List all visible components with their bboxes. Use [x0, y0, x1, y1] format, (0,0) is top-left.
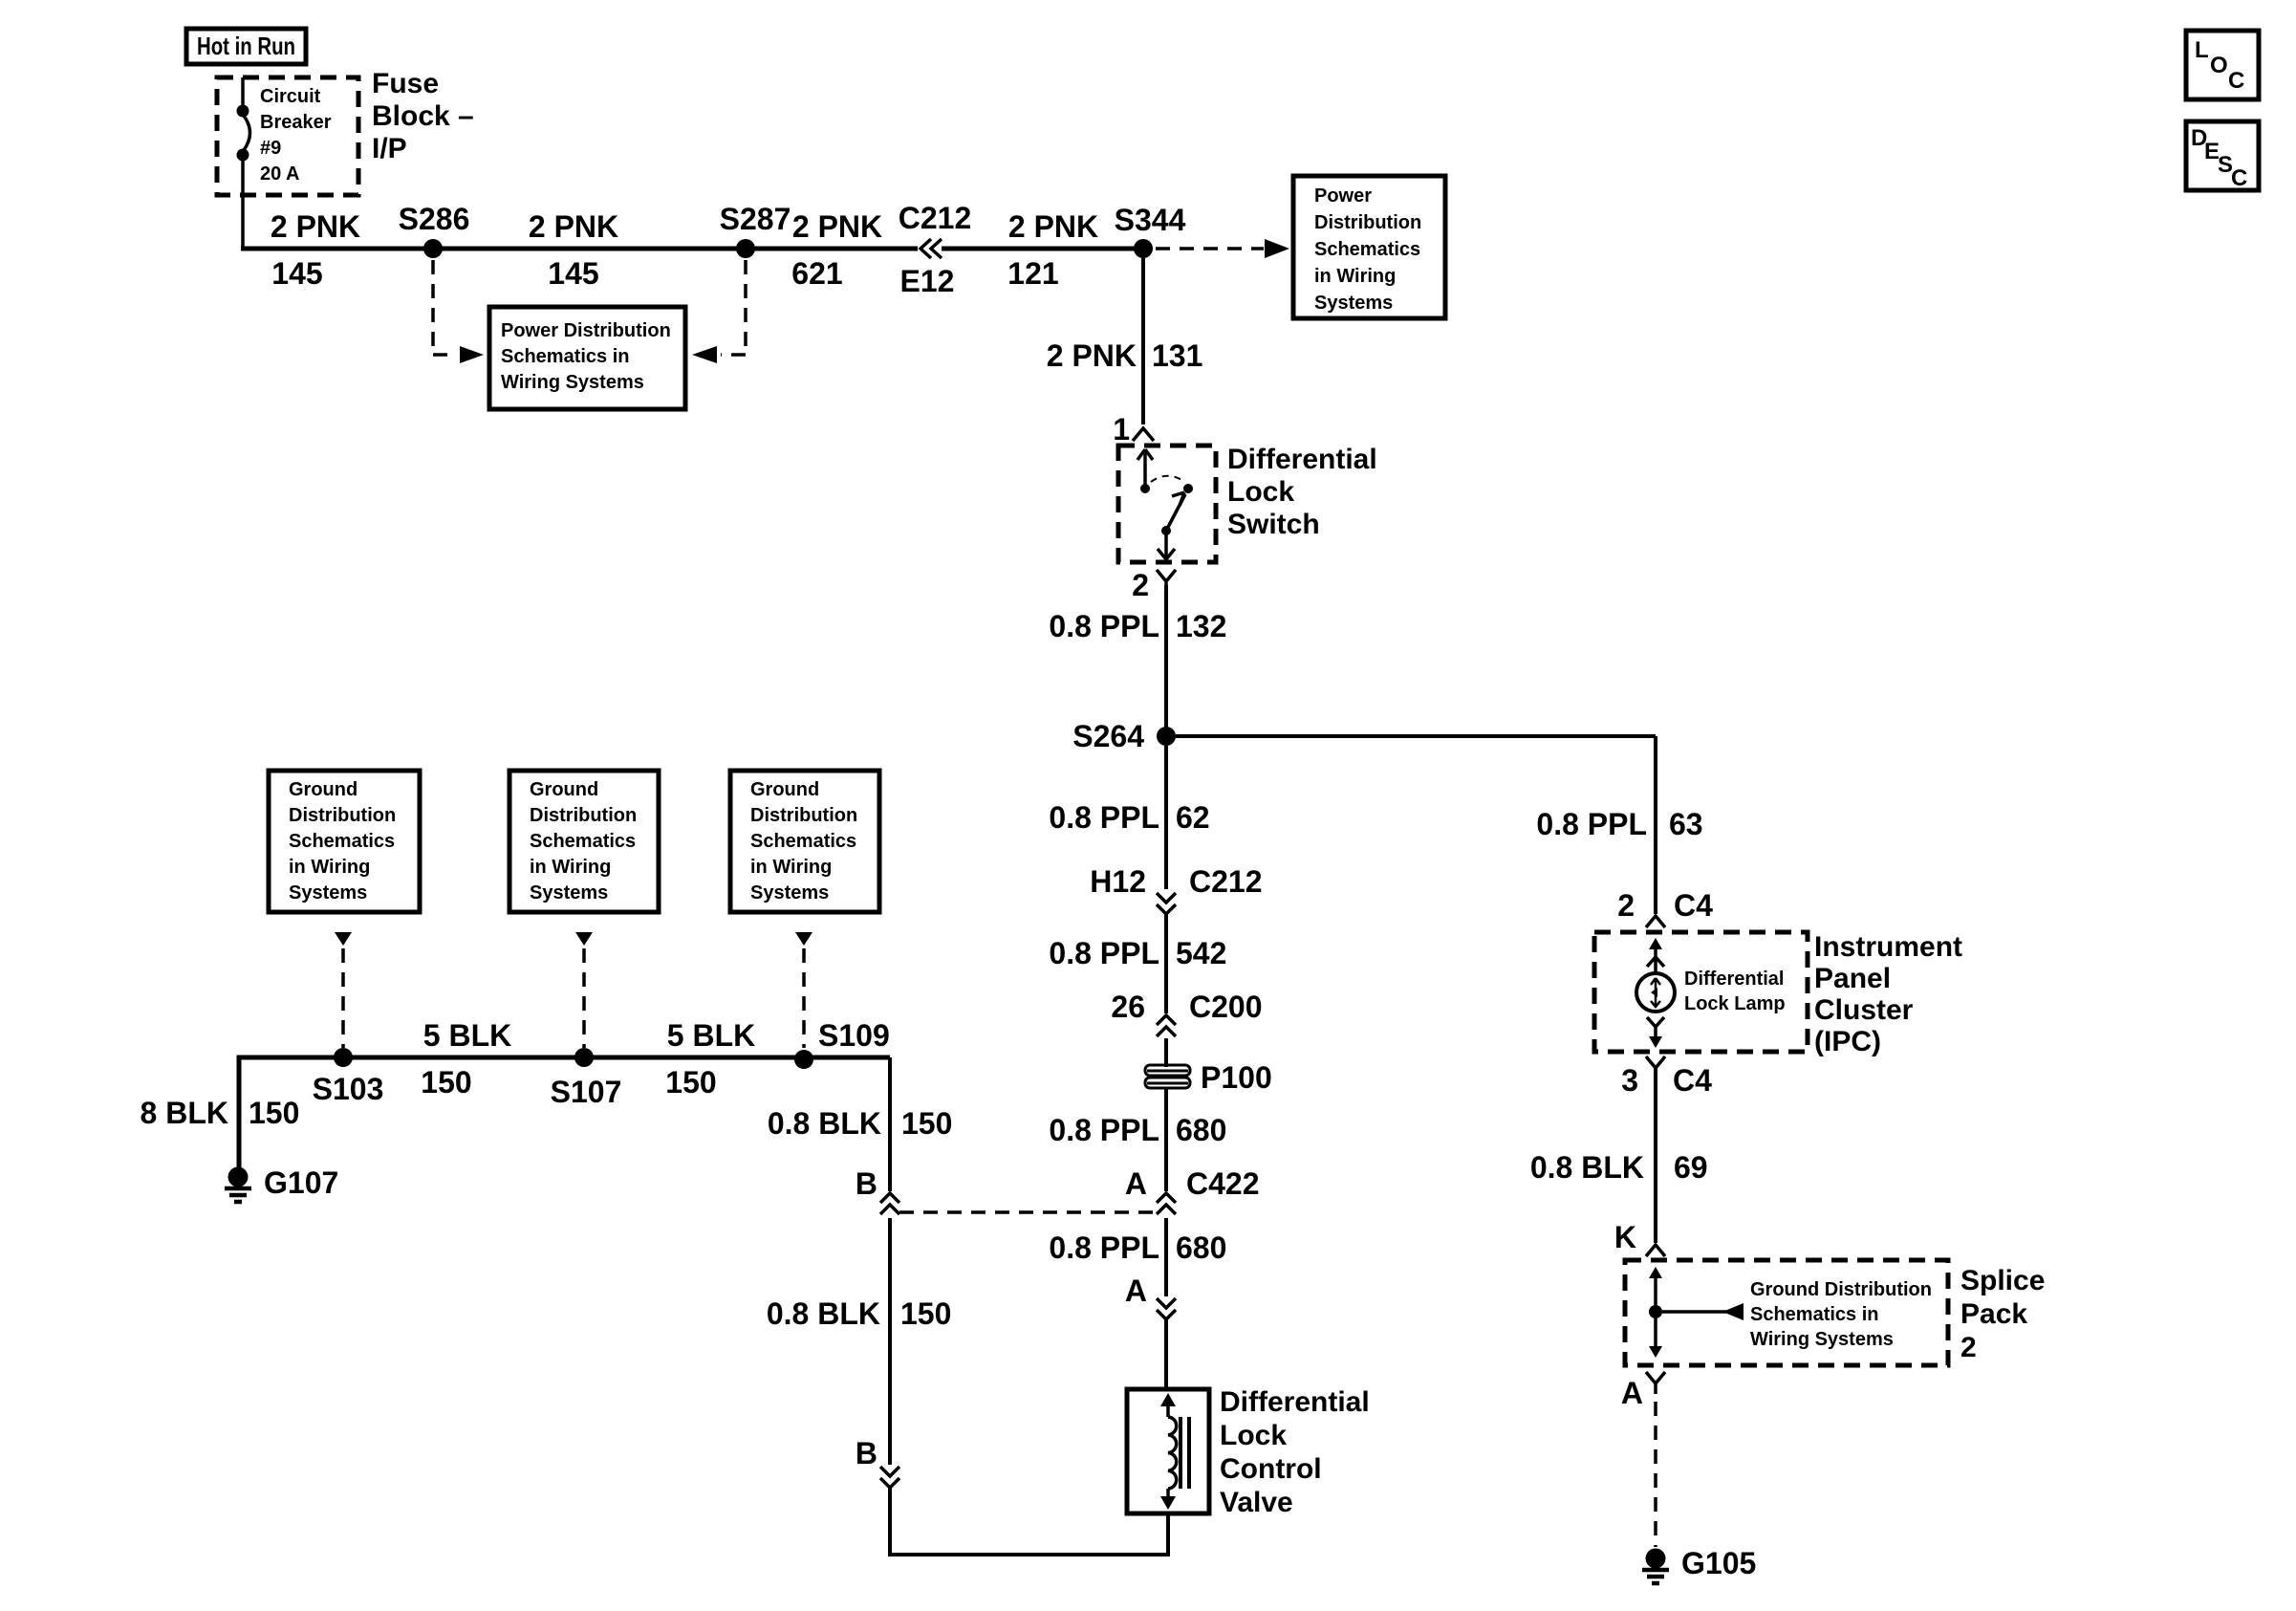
svg-text:E12: E12: [900, 264, 955, 298]
svg-text:Fuse: Fuse: [372, 68, 439, 99]
svg-text:B: B: [856, 1166, 877, 1201]
reference box: Power Distribution Schematics in Wiring Systems (left): [489, 307, 685, 409]
wire: 0.8 BLK 69 (IPC pin 3 to splice pack pin K): [1530, 1068, 1708, 1243]
dashed reference wire from S286 down to power distribution box: [433, 260, 484, 363]
splice S344: [1115, 203, 1186, 258]
wire: 5 BLK 150 (S107 to S109): [584, 1018, 890, 1099]
svg-text:in Wiring: in Wiring: [1314, 266, 1396, 287]
svg-text:C422: C422: [1186, 1166, 1260, 1201]
svg-text:Systems: Systems: [1314, 293, 1393, 314]
svg-text:0.8 PPL: 0.8 PPL: [1049, 936, 1159, 970]
splice S264: [1072, 719, 1176, 753]
svg-text:O: O: [2210, 53, 2228, 78]
svg-text:Switch: Switch: [1227, 509, 1320, 540]
svg-text:in Wiring: in Wiring: [530, 857, 611, 878]
svg-text:Schematics: Schematics: [289, 831, 395, 852]
svg-text:Ground Distribution: Ground Distribution: [1750, 1279, 1932, 1300]
svg-text:S286: S286: [399, 202, 470, 236]
wire: ground bus 8 BLK 150 (G107 up to S103): [141, 1057, 345, 1167]
svg-text:2 PNK: 2 PNK: [792, 209, 882, 244]
svg-text:2 PNK: 2 PNK: [1008, 209, 1098, 244]
valve coil internals: [1160, 1393, 1189, 1510]
wire: valve pin A into coil: [1164, 1319, 1168, 1389]
svg-text:20 A: 20 A: [260, 163, 300, 185]
svg-text:150: 150: [421, 1065, 471, 1099]
svg-text:P100: P100: [1201, 1060, 1272, 1095]
wire: 2 PNK 621 (S287 to C212): [791, 209, 882, 291]
wire: 2 PNK 145 (breaker to S286): [241, 209, 918, 291]
svg-text:A: A: [1125, 1274, 1147, 1308]
svg-text:Differential: Differential: [1220, 1386, 1370, 1418]
svg-text:0.8 BLK: 0.8 BLK: [1530, 1150, 1644, 1185]
svg-text:132: 132: [1176, 609, 1226, 643]
svg-text:Distribution: Distribution: [289, 805, 396, 826]
svg-text:C4: C4: [1673, 1063, 1712, 1098]
svg-text:C212: C212: [899, 201, 972, 235]
svg-text:C212: C212: [1189, 864, 1263, 899]
svg-text:121: 121: [1007, 256, 1058, 291]
connector C212 pin E12 (in-line, top bus): [899, 201, 972, 298]
svg-text:Control: Control: [1220, 1453, 1322, 1485]
dashed reference wire from S344 to power distribution box: [1156, 239, 1289, 258]
svg-text:0.8 PPL: 0.8 PPL: [1049, 1113, 1159, 1147]
connector C200 pin 26: [1111, 990, 1262, 1036]
svg-text:Systems: Systems: [289, 882, 367, 903]
splice S287: [720, 202, 791, 258]
svg-text:0.8 BLK: 0.8 BLK: [768, 1106, 881, 1141]
wire: 0.8 PPL 62 (S264 down to C212 pin H12): [1049, 746, 1209, 889]
svg-text:G107: G107: [264, 1165, 338, 1200]
svg-text:G105: G105: [1681, 1546, 1756, 1580]
svg-text:L: L: [2195, 37, 2209, 63]
svg-text:Distribution: Distribution: [1314, 212, 1421, 233]
valve pin B connector: [856, 1436, 899, 1488]
wire: C200 to grommet P100: [1164, 1038, 1168, 1067]
splice pack pin A connector: [1621, 1372, 1665, 1410]
svg-text:(IPC): (IPC): [1814, 1026, 1881, 1057]
svg-text:#9: #9: [260, 138, 281, 159]
svg-text:I/P: I/P: [372, 133, 407, 164]
svg-text:Splice: Splice: [1960, 1265, 2045, 1296]
svg-text:Block –: Block –: [372, 100, 474, 132]
svg-text:150: 150: [665, 1065, 716, 1099]
svg-text:0.8 PPL: 0.8 PPL: [1536, 807, 1647, 841]
svg-text:Systems: Systems: [530, 882, 608, 903]
svg-text:B: B: [856, 1436, 877, 1470]
svg-text:Instrument: Instrument: [1814, 931, 1962, 963]
svg-text:Lock: Lock: [1227, 476, 1294, 508]
svg-text:62: 62: [1176, 800, 1210, 835]
svg-text:2 PNK: 2 PNK: [271, 209, 360, 244]
svg-text:131: 131: [1152, 338, 1202, 373]
differential lock switch internals: [1137, 449, 1193, 559]
svg-text:C4: C4: [1674, 888, 1713, 923]
svg-text:in Wiring: in Wiring: [750, 857, 832, 878]
splice S103: [313, 1048, 384, 1106]
svg-text:Wiring Systems: Wiring Systems: [1750, 1329, 1894, 1350]
svg-text:680: 680: [1176, 1230, 1226, 1265]
corner tab: LOC: [2186, 31, 2259, 99]
connector C422 pin A: [1125, 1166, 1260, 1214]
svg-text:145: 145: [548, 256, 598, 291]
reference box: Power Distribution Schematics in Wiring Systems (right): [1293, 176, 1445, 318]
ground G107: [225, 1165, 338, 1202]
label: Fuse Block - I/P: [372, 68, 474, 164]
svg-text:C: C: [2228, 68, 2244, 94]
splice pack internals: [1649, 1267, 1932, 1358]
svg-text:H12: H12: [1090, 864, 1146, 899]
svg-text:A: A: [1125, 1166, 1147, 1201]
circuit breaker #9 20A: [237, 77, 332, 247]
svg-text:Ground: Ground: [530, 779, 598, 800]
connector C422 pin B: [856, 1166, 899, 1214]
svg-text:5 BLK: 5 BLK: [667, 1018, 755, 1053]
svg-text:Distribution: Distribution: [750, 805, 857, 826]
svg-text:680: 680: [1176, 1113, 1226, 1147]
wire: 0.8 PPL 542 (C212 to C200): [1049, 914, 1226, 1013]
svg-text:Pack: Pack: [1960, 1298, 2027, 1330]
svg-text:S103: S103: [313, 1072, 384, 1106]
dashed reference wire from box1 to S103: [335, 932, 352, 1048]
label: Differential Lock Control Valve: [1220, 1386, 1370, 1518]
svg-text:0.8 BLK: 0.8 BLK: [767, 1296, 880, 1331]
wire: 2 PNK 131 (S344 down to switch pin 1): [1047, 258, 1203, 425]
reference box: Ground Distribution (3): [730, 771, 879, 912]
svg-text:26: 26: [1111, 990, 1145, 1024]
label: Instrument Panel Cluster (IPC): [1814, 931, 1962, 1057]
splice pack 2 dashed box: [1625, 1260, 1948, 1365]
switch pin 2 connector: [1132, 568, 1176, 602]
svg-text:Breaker: Breaker: [260, 112, 332, 133]
svg-text:2: 2: [1617, 888, 1635, 923]
wire: 5 BLK 150 (S103 to S107): [345, 1018, 584, 1099]
svg-text:0.8 PPL: 0.8 PPL: [1049, 609, 1159, 643]
svg-text:S264: S264: [1072, 719, 1144, 753]
svg-text:C200: C200: [1189, 990, 1263, 1024]
dashed wire: splice pack pin A to G105: [1654, 1402, 1657, 1547]
svg-text:Power Distribution: Power Distribution: [501, 320, 671, 341]
corner tab: DESC: [2186, 121, 2259, 191]
svg-text:Differential: Differential: [1684, 969, 1784, 990]
svg-text:145: 145: [271, 256, 322, 291]
svg-text:Cluster: Cluster: [1814, 994, 1914, 1026]
svg-text:Power: Power: [1314, 185, 1372, 207]
svg-text:Schematics: Schematics: [530, 831, 636, 852]
wire: valve return (pin B to valve bottom): [890, 1488, 1168, 1555]
wire: 0.8 BLK 150 (C422 pin B down to valve pin B): [767, 1218, 952, 1465]
svg-text:Lock: Lock: [1220, 1420, 1287, 1451]
svg-text:Hot in Run: Hot in Run: [197, 32, 295, 60]
svg-text:Schematics in: Schematics in: [501, 346, 630, 367]
svg-text:Schematics in: Schematics in: [1750, 1304, 1879, 1325]
svg-text:S107: S107: [551, 1075, 622, 1109]
svg-text:8 BLK: 8 BLK: [141, 1096, 228, 1130]
svg-text:Circuit: Circuit: [260, 86, 321, 107]
svg-text:Wiring Systems: Wiring Systems: [501, 372, 644, 393]
svg-text:1: 1: [1113, 412, 1130, 446]
reference box: Ground Distribution (1): [269, 771, 420, 912]
label: Splice Pack 2: [1960, 1265, 2045, 1363]
fuse block dashed box: [217, 77, 358, 195]
svg-text:Schematics: Schematics: [1314, 239, 1420, 260]
dashed reference wire from box2 to S107: [575, 932, 593, 1048]
svg-text:0.8 PPL: 0.8 PPL: [1049, 800, 1159, 835]
svg-text:Distribution: Distribution: [530, 805, 637, 826]
wire: 2 PNK 121 (C212 to S344): [942, 209, 1137, 291]
connector C212 pin H12: [1090, 864, 1262, 914]
svg-text:2 PNK: 2 PNK: [529, 209, 618, 244]
wire: 0.8 PPL 63 (S264 branch down to IPC pin 2): [1536, 736, 1702, 914]
ground G105: [1642, 1546, 1756, 1583]
wire: branch from S264 to IPC (horizontal): [1176, 734, 1656, 738]
svg-text:621: 621: [791, 256, 842, 291]
svg-text:150: 150: [249, 1096, 299, 1130]
wire: 0.8 PPL 680 (P100 to C422 pin A): [1049, 1089, 1226, 1191]
connector C4 pin 2: [1617, 888, 1713, 927]
svg-text:A: A: [1621, 1376, 1643, 1410]
label box: Hot in Run: [186, 29, 306, 64]
svg-text:3: 3: [1621, 1063, 1638, 1098]
svg-text:Schematics: Schematics: [750, 831, 856, 852]
instrument panel cluster dashed box: [1594, 932, 1808, 1052]
svg-text:150: 150: [900, 1296, 951, 1331]
svg-text:Panel: Panel: [1814, 963, 1891, 994]
svg-text:Differential: Differential: [1227, 444, 1377, 475]
svg-text:150: 150: [901, 1106, 952, 1141]
splice S286: [399, 202, 470, 258]
differential lock lamp (inside IPC): [1636, 938, 1786, 1048]
dashed reference wire from box3 to S109: [795, 932, 812, 1048]
wire: 0.8 PPL 680 (C422 pin A to valve pin A): [1049, 1218, 1226, 1296]
svg-text:S344: S344: [1115, 203, 1186, 237]
svg-text:C: C: [2231, 165, 2247, 191]
svg-text:2: 2: [1132, 568, 1149, 602]
dashed connector line C422: [899, 1210, 1157, 1214]
differential lock switch dashed box: [1118, 446, 1216, 562]
wire: 2 PNK 145 (S286 to S287): [529, 209, 618, 291]
svg-text:69: 69: [1674, 1150, 1708, 1185]
svg-text:0.8 PPL: 0.8 PPL: [1049, 1230, 1159, 1265]
label: Differential Lock Switch: [1227, 444, 1377, 540]
svg-text:K: K: [1614, 1220, 1636, 1254]
svg-text:2: 2: [1960, 1332, 1977, 1363]
splice pack pin K connector: [1614, 1220, 1665, 1256]
svg-text:542: 542: [1176, 936, 1226, 970]
svg-text:S109: S109: [818, 1018, 890, 1053]
svg-text:S287: S287: [720, 202, 791, 236]
grommet P100: [1145, 1060, 1272, 1095]
svg-text:in Wiring: in Wiring: [289, 857, 370, 878]
svg-text:Lock Lamp: Lock Lamp: [1684, 993, 1786, 1014]
svg-text:2 PNK: 2 PNK: [1047, 338, 1137, 373]
svg-text:Ground: Ground: [750, 779, 819, 800]
wire: 0.8 PPL 132 (switch pin 2 to S264): [1049, 585, 1226, 729]
svg-text:5 BLK: 5 BLK: [423, 1018, 511, 1053]
connector C4 pin 3: [1621, 1056, 1712, 1098]
svg-text:63: 63: [1669, 807, 1703, 841]
svg-text:Ground: Ground: [289, 779, 357, 800]
differential lock control valve box: [1127, 1389, 1209, 1513]
reference box: Ground Distribution (2): [509, 771, 659, 912]
svg-text:Systems: Systems: [750, 882, 829, 903]
switch pin 1 connector: [1113, 412, 1154, 446]
splice S109: [794, 1018, 890, 1069]
splice S107: [551, 1048, 622, 1109]
svg-text:Valve: Valve: [1220, 1487, 1293, 1518]
dashed reference wire from S287 down to power distribution box: [692, 260, 746, 363]
wire: 0.8 BLK 150 (S109 down to C422 pin B): [768, 1057, 953, 1191]
valve pin A connector: [1125, 1274, 1176, 1319]
